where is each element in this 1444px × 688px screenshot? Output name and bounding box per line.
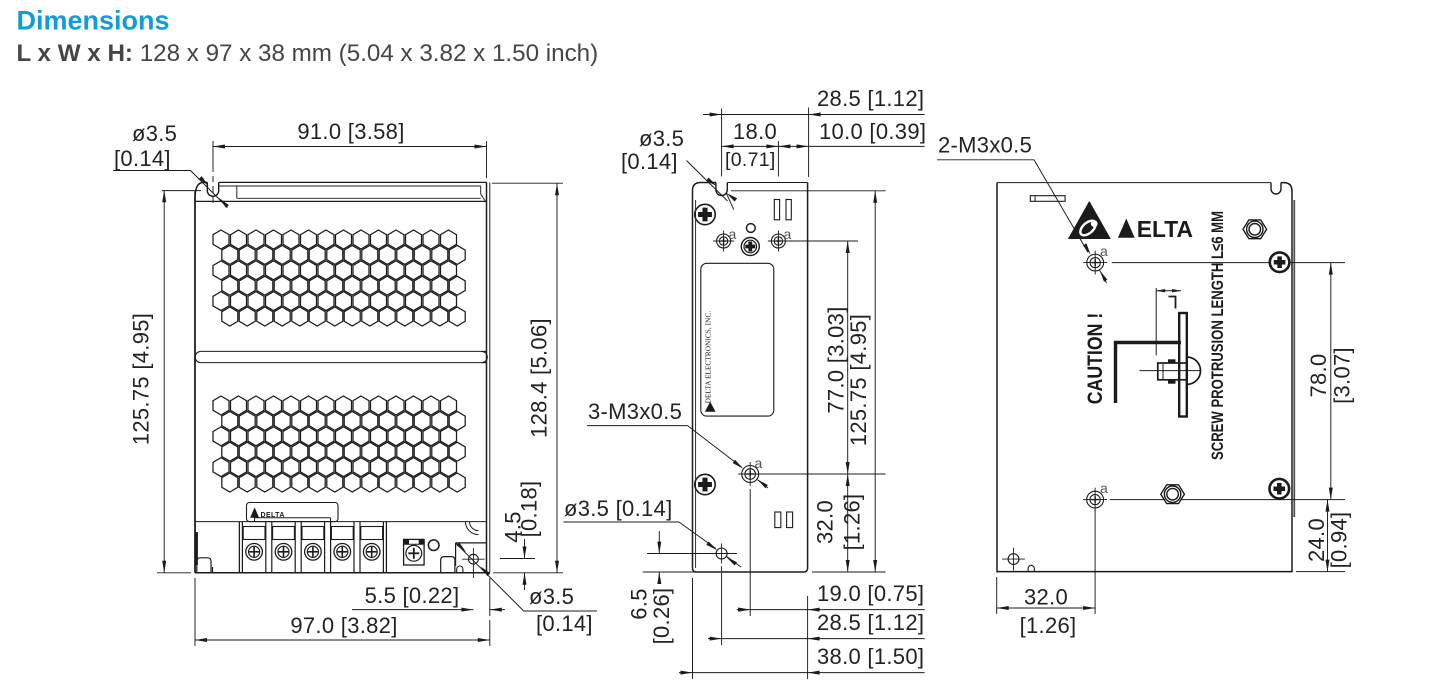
svg-text:24.0: 24.0 [1304, 518, 1329, 562]
svg-text:ø3.5: ø3.5 [132, 121, 177, 146]
svg-text:125.75 [4.95]: 125.75 [4.95] [846, 314, 871, 446]
svg-text:ø3.5 [0.14]: ø3.5 [0.14] [564, 496, 672, 521]
svg-text:125.75 [4.95]: 125.75 [4.95] [129, 313, 154, 445]
svg-text:18.0: 18.0 [733, 119, 777, 144]
svg-text:L x W x H: 128 x 97 x 38 mm (5: L x W x H: 128 x 97 x 38 mm (5.04 x 3.82… [17, 40, 599, 67]
svg-text:5.5 [0.22]: 5.5 [0.22] [365, 583, 460, 608]
svg-text:[1.26]: [1.26] [1020, 613, 1077, 638]
svg-text:91.0 [3.58]: 91.0 [3.58] [297, 119, 404, 144]
svg-text:77.0 [3.03]: 77.0 [3.03] [824, 306, 849, 413]
svg-text:ø3.5: ø3.5 [529, 584, 574, 609]
svg-text:28.5 [1.12]: 28.5 [1.12] [817, 610, 924, 635]
svg-text:DELTA ELECTRONICS, INC.: DELTA ELECTRONICS, INC. [705, 311, 713, 404]
svg-text:3-M3x0.5: 3-M3x0.5 [588, 399, 682, 424]
svg-text:[0.14]: [0.14] [621, 149, 678, 174]
svg-text:6.5: 6.5 [627, 588, 652, 619]
svg-text:a: a [755, 455, 763, 471]
svg-text:[0.94]: [0.94] [1327, 512, 1352, 569]
svg-text:32.0: 32.0 [813, 500, 838, 544]
svg-text:128.4 [5.06]: 128.4 [5.06] [527, 318, 552, 438]
svg-text:28.5 [1.12]: 28.5 [1.12] [817, 86, 924, 111]
svg-text:78.0: 78.0 [1306, 353, 1331, 397]
svg-text:[0.14]: [0.14] [536, 611, 593, 636]
svg-text:ø3.5: ø3.5 [639, 126, 684, 151]
svg-text:38.0 [1.50]: 38.0 [1.50] [817, 644, 924, 669]
svg-text:Dimensions: Dimensions [17, 6, 170, 36]
svg-text:32.0: 32.0 [1024, 585, 1068, 610]
svg-text:[1.26]: [1.26] [840, 494, 865, 551]
svg-text:[0.71]: [0.71] [725, 149, 776, 171]
svg-text:a: a [1100, 480, 1108, 496]
svg-text:CAUTION !: CAUTION ! [1084, 313, 1107, 405]
svg-text:a: a [1100, 243, 1108, 259]
svg-text:2-M3x0.5: 2-M3x0.5 [938, 133, 1032, 158]
svg-text:97.0 [3.82]: 97.0 [3.82] [290, 613, 397, 638]
svg-text:a: a [784, 226, 792, 242]
svg-text:19.0 [0.75]: 19.0 [0.75] [817, 581, 924, 606]
svg-text:[0.18]: [0.18] [517, 481, 542, 538]
svg-text:[0.26]: [0.26] [649, 588, 674, 645]
svg-text:DELTA: DELTA [261, 512, 285, 519]
svg-text:10.0 [0.39]: 10.0 [0.39] [819, 119, 926, 144]
svg-text:[0.14]: [0.14] [114, 146, 171, 171]
svg-text:a: a [729, 226, 737, 242]
svg-text:[3.07]: [3.07] [1330, 347, 1355, 404]
svg-text:ELTA: ELTA [1137, 216, 1193, 242]
svg-text:SCREW PROTRUSION LENGTH L≤6 M: SCREW PROTRUSION LENGTH L≤6 MM [1208, 211, 1227, 460]
